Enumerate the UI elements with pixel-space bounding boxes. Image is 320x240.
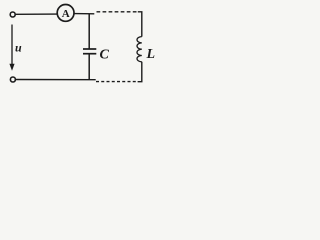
ammeter A1 circle — [57, 5, 74, 22]
wire: voltage arrow line u — [11, 25, 13, 66]
wire: dashed top to inductor — [97, 11, 139, 13]
wire: capacitor branch upper vertical — [88, 14, 90, 49]
wire: bottom horizontal — [16, 79, 96, 81]
wire: capacitor branch lower vertical — [88, 54, 90, 79]
svg-text:u: u — [15, 41, 22, 55]
inductor L coil — [137, 37, 142, 62]
terminal top-left — [10, 12, 15, 17]
wire: top-left terminal to ammeter — [16, 13, 58, 15]
wire: ammeter to capacitor node — [74, 13, 94, 15]
capacitor C plates — [83, 48, 96, 50]
svg-text:A: A — [62, 8, 70, 20]
circuit schematic: source u, ammeter A, capacitor C, inductor L — [0, 0, 167, 96]
svg-text:L: L — [146, 47, 156, 62]
wire: inductor top corner — [138, 12, 142, 37]
wire: inductor bottom corner — [138, 62, 142, 82]
svg-text:C: C — [100, 48, 110, 63]
arrow head of u — [9, 64, 14, 71]
terminal bottom-left — [10, 77, 15, 82]
wire: dashed bottom — [96, 81, 137, 83]
